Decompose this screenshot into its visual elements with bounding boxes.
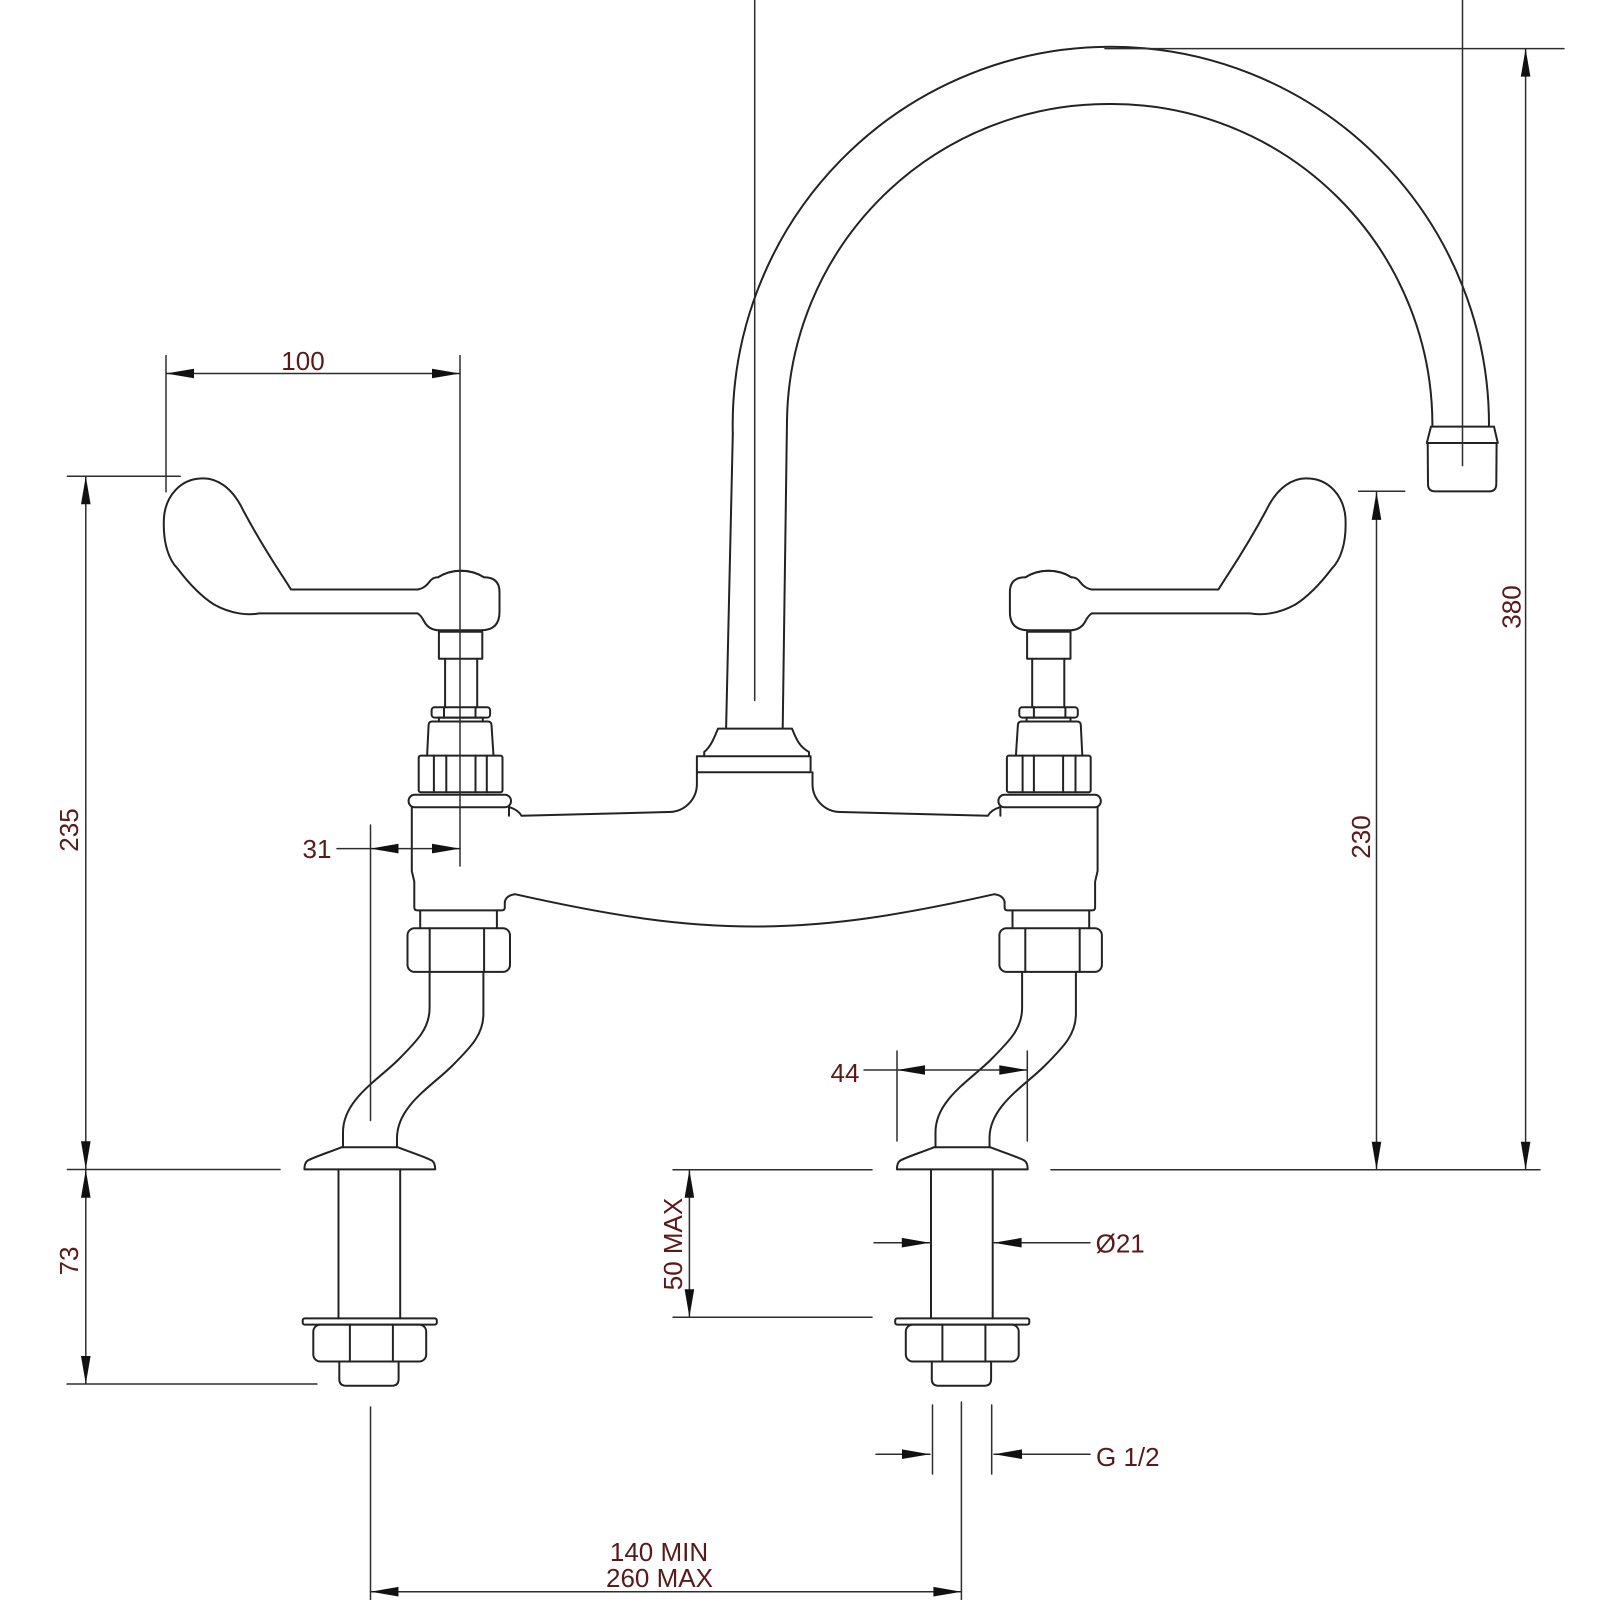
right handle socket boss bbox=[1027, 632, 1070, 659]
spout swan-neck inner arc bbox=[787, 104, 1432, 425]
svg-text:73: 73 bbox=[54, 1247, 84, 1276]
spout riser pipe bbox=[726, 420, 787, 729]
dimension 50 MAX bbox=[658, 1170, 872, 1318]
svg-text:31: 31 bbox=[303, 834, 332, 864]
svg-text:235: 235 bbox=[54, 808, 84, 851]
svg-text:380: 380 bbox=[1497, 585, 1527, 628]
right valve stem bbox=[1032, 659, 1064, 707]
svg-text:230: 230 bbox=[1346, 815, 1376, 858]
dimension 31 bbox=[303, 825, 460, 1121]
right leg centerline lower bbox=[960, 1402, 962, 1600]
dimension 235 bbox=[54, 476, 91, 1169]
dimension 100 bbox=[67, 346, 460, 492]
svg-text:50 MAX: 50 MAX bbox=[658, 1198, 688, 1291]
right valve assembly (mirrored) bbox=[998, 478, 1345, 972]
left valve collar flange bbox=[409, 795, 511, 808]
left stem locknut bbox=[432, 707, 491, 717]
right threaded shank bbox=[931, 1169, 993, 1318]
deck line left segment bbox=[67, 1169, 280, 1171]
bridge arm top edge bbox=[510, 772, 999, 816]
right valve collar flange bbox=[998, 795, 1100, 808]
spout centerline bbox=[754, 0, 756, 700]
deck line right segment bbox=[1051, 1169, 1540, 1171]
aerator outlet bbox=[1427, 427, 1498, 492]
spout swan-neck outer arc bbox=[733, 47, 1489, 434]
svg-text:Ø21: Ø21 bbox=[1096, 1229, 1145, 1259]
right stem locknut bbox=[1019, 707, 1078, 717]
svg-text:260 MAX: 260 MAX bbox=[606, 1563, 713, 1593]
spout base flare bbox=[704, 729, 809, 757]
left backnut bbox=[313, 1325, 426, 1362]
dimension 44 bbox=[831, 1051, 1028, 1141]
bridge arm bottom edge bbox=[505, 894, 1005, 926]
right union nut bbox=[999, 928, 1102, 972]
left shank thread end bbox=[339, 1362, 398, 1386]
left handle wing lever bbox=[164, 478, 418, 614]
left valve stem bbox=[445, 659, 477, 707]
left leg assembly bbox=[303, 972, 484, 1386]
right handle wing lever bbox=[1092, 478, 1346, 614]
left S-bend offset pipe bbox=[343, 972, 483, 1147]
left leg base flange bbox=[304, 1147, 435, 1169]
left leg centerline lower bbox=[370, 1407, 372, 1600]
dimension 230 bbox=[1346, 491, 1405, 1169]
left valve centerline / 100 extension bbox=[459, 356, 461, 867]
dimension 140 MIN / 260 MAX bbox=[371, 1537, 962, 1597]
dimension 73 bbox=[54, 1170, 317, 1384]
dimension 380 bbox=[1105, 49, 1564, 1170]
left threaded shank bbox=[339, 1169, 401, 1318]
spout base ring bbox=[697, 756, 811, 772]
left bonnet cup bbox=[427, 722, 493, 756]
right shank thread end bbox=[932, 1362, 991, 1386]
right leg assembly (translated) bbox=[895, 972, 1076, 1386]
left union nut bbox=[408, 928, 511, 972]
dimension diameter 21 bbox=[874, 1229, 1145, 1259]
right leg base flange bbox=[897, 1147, 1028, 1169]
right handle ball joint bbox=[1010, 571, 1092, 630]
left backnut washer bbox=[303, 1318, 437, 1324]
left valve assembly bbox=[164, 478, 511, 972]
left valve neck bbox=[420, 910, 497, 928]
left bonnet splined ring bbox=[419, 756, 503, 793]
left valve body bbox=[412, 807, 509, 910]
svg-text:G 1/2: G 1/2 bbox=[1096, 1442, 1160, 1472]
right backnut bbox=[906, 1325, 1019, 1362]
aerator centerline bbox=[1462, 0, 1464, 466]
right valve body bbox=[1000, 807, 1097, 910]
left handle socket boss bbox=[439, 632, 482, 659]
left bonnet washer bbox=[439, 718, 483, 722]
right valve neck bbox=[1013, 910, 1090, 928]
right backnut washer bbox=[895, 1318, 1029, 1324]
dimension G 1/2 bbox=[876, 1405, 1160, 1474]
left handle ball joint bbox=[418, 571, 500, 630]
right bonnet washer bbox=[1027, 718, 1071, 722]
right S-bend offset pipe bbox=[936, 972, 1076, 1147]
right bonnet cup bbox=[1016, 722, 1082, 756]
svg-text:100: 100 bbox=[281, 346, 324, 376]
svg-text:44: 44 bbox=[831, 1058, 860, 1088]
right bonnet splined ring bbox=[1007, 756, 1091, 793]
